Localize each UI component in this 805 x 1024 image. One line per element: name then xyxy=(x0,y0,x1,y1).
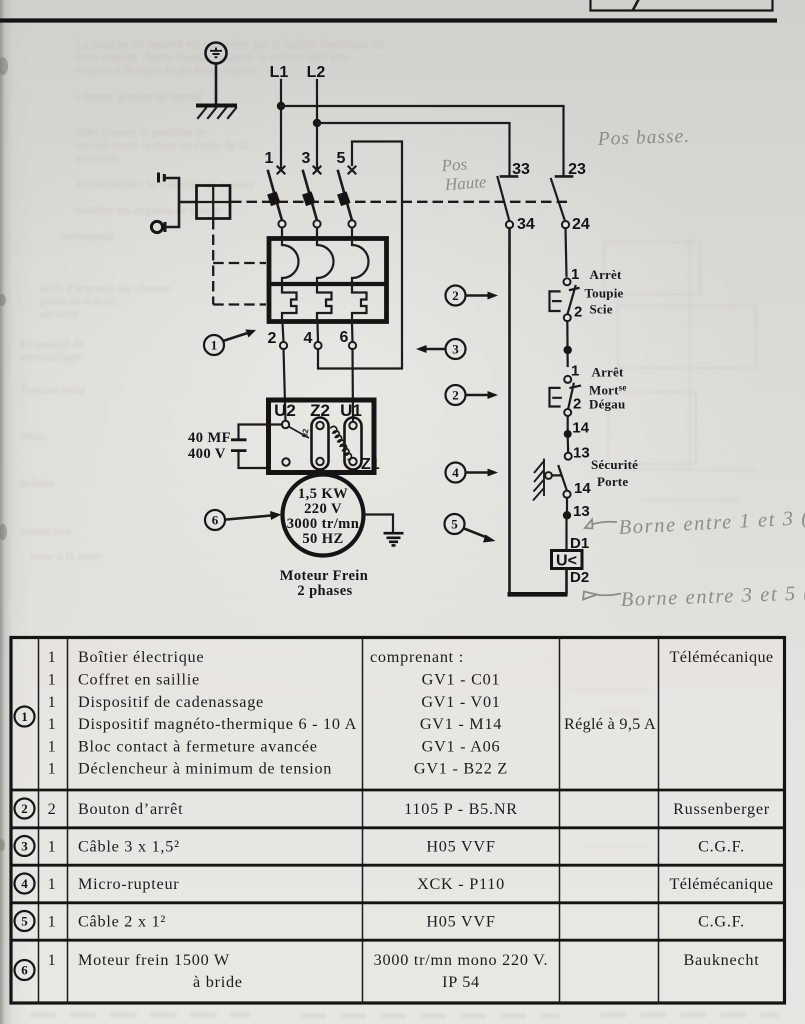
svg-text:40 MF: 40 MF xyxy=(188,430,231,446)
wire door 14 to dot 13 xyxy=(566,498,568,512)
contact circle 34 xyxy=(506,221,513,228)
svg-text:Déclencheur à minimum de tensi: Déclencheur à minimum de tension xyxy=(78,760,332,778)
svg-text:Télémécanique: Télémécanique xyxy=(669,648,773,666)
svg-text:1: 1 xyxy=(48,738,57,756)
svg-text:Scie: Scie xyxy=(590,302,613,317)
moving contact circle pole 1 xyxy=(278,220,285,227)
svg-text:GV1 - C01: GV1 - C01 xyxy=(422,671,501,689)
svg-text:5: 5 xyxy=(337,150,346,167)
svg-text:arrêt d'urgence sur chaque: arrêt d'urgence sur chaque xyxy=(40,281,171,295)
svg-text:contacteur: contacteur xyxy=(20,524,73,538)
earth symbol in circle (top left) xyxy=(206,43,227,64)
wire: 34 to bottom rail xyxy=(508,228,511,593)
circled ref 2 (upper) xyxy=(446,286,466,306)
svg-text:3: 3 xyxy=(21,839,28,854)
circled ref 3 xyxy=(446,339,466,359)
svg-text:Réglé à 9,5 A: Réglé à 9,5 A xyxy=(564,715,656,733)
title box (cut at page top) xyxy=(591,0,773,11)
terminal circle U2 xyxy=(282,421,289,428)
handle box (main switch operator) xyxy=(197,186,231,219)
svg-text:220 V: 220 V xyxy=(304,501,342,517)
table row separators xyxy=(11,790,785,940)
wire dot 13 to D1 xyxy=(565,515,567,550)
svg-text:Pos basse.: Pos basse. xyxy=(596,126,690,150)
svg-text:Moteur frein 1500 W: Moteur frein 1500 W xyxy=(78,951,230,969)
svg-text:C.G.F.: C.G.F. xyxy=(698,838,745,856)
bottom rail (bold) xyxy=(508,592,568,597)
svg-text:1: 1 xyxy=(48,648,57,666)
dashed trip bar xyxy=(231,201,567,203)
svg-text:Borne entre 3 et 5 (Ri: Borne entre 3 et 5 (Ri xyxy=(620,582,805,611)
svg-text:toucher les organes de coupe: toucher les organes de coupe xyxy=(76,203,221,217)
svg-text:Câble 3 x 1,5²: Câble 3 x 1,5² xyxy=(78,838,180,856)
svg-text:Arrèt: Arrèt xyxy=(590,267,622,282)
row 1 circled ref xyxy=(15,707,35,727)
svg-text:1: 1 xyxy=(571,266,579,283)
svg-text:2: 2 xyxy=(574,304,582,321)
svg-text:1: 1 xyxy=(48,715,57,733)
svg-text:1: 1 xyxy=(48,951,57,969)
wire U2 to capacitor xyxy=(239,425,283,439)
svg-text:1: 1 xyxy=(48,913,57,931)
svg-text:D2: D2 xyxy=(570,569,589,586)
svg-text:4: 4 xyxy=(21,876,28,891)
magnetic element pole 3 xyxy=(317,284,332,321)
dashed link: to thermal release xyxy=(213,262,266,264)
svg-text:3000 tr/mn: 3000 tr/mn xyxy=(287,516,360,532)
magnetic element pole 1 xyxy=(282,284,297,321)
thermal element pole 1 xyxy=(282,239,299,285)
contact circle 14 (door) xyxy=(563,491,570,498)
breaker blade pole 3 xyxy=(303,171,317,221)
svg-text:GV1 - M14: GV1 - M14 xyxy=(420,715,502,733)
svg-text:Toupie: Toupie xyxy=(585,286,624,301)
wire: L2 bus to contact 33 xyxy=(317,123,510,175)
capacitor C1 plates xyxy=(231,440,247,451)
U1 top screw xyxy=(349,422,356,429)
circled ref 6 xyxy=(205,510,225,530)
svg-text:Dispositif de cadenassage: Dispositif de cadenassage xyxy=(78,693,264,711)
svg-text:GV1 - A06: GV1 - A06 xyxy=(422,738,501,756)
svg-text:1: 1 xyxy=(48,671,57,689)
leader arrow ref 2 lower xyxy=(466,391,498,399)
svg-text:1: 1 xyxy=(21,709,28,724)
svg-text:H05 VVF: H05 VVF xyxy=(426,838,495,856)
trip block pole 3 xyxy=(307,193,311,205)
table column lines xyxy=(39,638,659,1004)
O terminal tick xyxy=(164,222,167,232)
svg-text:1: 1 xyxy=(48,693,57,711)
svg-text:à bride: à bride xyxy=(193,973,243,991)
svg-text:Bauknecht: Bauknecht xyxy=(684,951,760,969)
terminal circle 6 xyxy=(349,342,356,349)
moving contact circle pole 3 xyxy=(313,220,320,227)
leader arrow ref 3 (points left) xyxy=(416,345,445,353)
spare screw bottom-left xyxy=(282,458,289,465)
svg-text:Z1: Z1 xyxy=(361,456,380,473)
svg-text:Arrêt: Arrêt xyxy=(592,365,624,380)
wire pole3 into box xyxy=(316,228,318,238)
svg-text:Télémécanique: Télémécanique xyxy=(669,875,773,893)
circled ref 5 xyxy=(445,514,465,534)
svg-text:3: 3 xyxy=(452,342,459,357)
overload relay box GV1 xyxy=(269,239,387,322)
wire stop B to 14 xyxy=(567,416,569,430)
svg-text:IP 54: IP 54 xyxy=(442,973,480,991)
svg-text:2: 2 xyxy=(452,288,459,303)
wire stop A to junction xyxy=(566,321,569,366)
top rule xyxy=(0,18,777,22)
mushroom head stop B xyxy=(550,388,561,407)
junction dot on L1 xyxy=(277,102,285,110)
limit switch contact 23-24 xyxy=(551,176,572,221)
wire terminal 6 to U1 xyxy=(351,349,354,421)
svg-text:Sécurité: Sécurité xyxy=(591,457,638,472)
wire terminal 2 to U2 xyxy=(284,349,286,421)
svg-text:sélectionner la position de: sélectionner la position de xyxy=(76,125,207,139)
stop A bottom circle xyxy=(564,314,571,321)
svg-text:34: 34 xyxy=(517,216,535,233)
row 3 xyxy=(15,836,35,856)
svg-text:poste de travail: poste de travail xyxy=(40,294,117,308)
thermal element pole 5 xyxy=(352,239,369,285)
svg-text:1: 1 xyxy=(265,150,274,167)
wire: L1 drop xyxy=(280,80,282,169)
leader arrow ref 4 xyxy=(466,469,498,477)
handwritten pointer 1 xyxy=(585,520,617,529)
svg-text:1: 1 xyxy=(48,838,57,856)
svg-text:13: 13 xyxy=(573,503,590,520)
stop B blade xyxy=(568,384,580,411)
motor M circle xyxy=(283,475,364,556)
svg-text:50 HZ: 50 HZ xyxy=(302,531,343,547)
wire pole5 into box xyxy=(351,228,353,238)
leader arrow ref 5 xyxy=(464,529,496,543)
limit switch contact 33-34 xyxy=(498,176,518,221)
svg-text:6: 6 xyxy=(21,963,28,978)
breaker blade pole 5 xyxy=(338,171,352,221)
svg-text:C.G.F.: C.G.F. xyxy=(698,913,745,931)
svg-text:bobine: bobine xyxy=(20,476,54,490)
svg-text:L1: L1 xyxy=(270,64,289,81)
svg-text:comprenant :: comprenant : xyxy=(370,648,464,666)
Z2 bottom screw xyxy=(316,458,323,465)
svg-text:Boîtier électrique: Boîtier électrique xyxy=(78,648,204,666)
circled ref 2 (lower) xyxy=(446,385,466,405)
svg-text:relais: relais xyxy=(20,429,47,443)
parts table frame xyxy=(11,638,785,1004)
terminal x mark pole 1 xyxy=(278,167,285,174)
svg-text:relancé à la main avant toute: relancé à la main avant toute reprise xyxy=(76,63,257,77)
row 2 xyxy=(15,799,35,819)
wire pole1 to terminal 2 xyxy=(283,323,284,342)
breaker blade pole 1 xyxy=(268,171,282,221)
terminal circle 4 xyxy=(314,342,321,349)
svg-text:Moteur Frein: Moteur Frein xyxy=(280,568,368,584)
svg-text:Dispositif magnéto-thermique 6: Dispositif magnéto-thermique 6 - 10 A xyxy=(78,715,357,733)
svg-text:verrouillage: verrouillage xyxy=(20,350,81,364)
mushroom head stop A xyxy=(550,291,561,311)
svg-text:1: 1 xyxy=(48,760,57,778)
wire pole5 to terminal 6 xyxy=(351,323,354,342)
svg-text:2: 2 xyxy=(21,801,28,816)
svg-text:machine: machine xyxy=(76,151,119,165)
svg-text:travail avant la mise en route: travail avant la mise en route de la xyxy=(76,138,248,152)
svg-text:Chaque groupe de travail: Chaque groupe de travail xyxy=(76,90,203,104)
wire capacitor to box xyxy=(239,452,267,468)
svg-text:Borne entre 1 et 3 (Bleu: Borne entre 1 et 3 (Bleu xyxy=(618,505,805,539)
stop B bottom circle xyxy=(564,409,571,416)
svg-text:H05 VVF: H05 VVF xyxy=(426,913,495,931)
svg-text:Haute: Haute xyxy=(443,172,487,194)
terminal x mark pole 5 xyxy=(349,167,356,174)
wire: L2 drop xyxy=(316,80,318,169)
svg-text:6: 6 xyxy=(340,329,349,346)
wire pole1 into box xyxy=(281,228,283,238)
svg-text:3: 3 xyxy=(302,150,311,167)
svg-text:400 V: 400 V xyxy=(188,446,226,462)
svg-text:L2: L2 xyxy=(307,64,326,81)
svg-text:mise à la terre: mise à la terre xyxy=(30,549,101,563)
handle label O xyxy=(151,221,162,232)
svg-text:Porte: Porte xyxy=(597,474,628,489)
svg-text:1: 1 xyxy=(48,875,57,893)
svg-text:Pos: Pos xyxy=(440,154,468,175)
svg-text:02: 02 xyxy=(300,427,311,438)
wire terminal 4 loop to pole 5 input xyxy=(318,142,402,369)
handwritten pointer 2 xyxy=(583,592,621,600)
terminal dot 13 (lower) xyxy=(563,511,571,519)
svg-text:13: 13 xyxy=(573,445,590,462)
row 4 xyxy=(15,874,35,894)
terminal link Z2 (stadium) xyxy=(312,418,329,470)
svg-text:1105 P - B5.NR: 1105 P - B5.NR xyxy=(404,800,518,818)
magnetic element pole 5 xyxy=(352,284,367,321)
terminal x mark pole 3 xyxy=(314,167,321,174)
stop A top circle xyxy=(564,278,571,285)
dashed link: to magnetic release xyxy=(213,303,266,305)
door switch pivot xyxy=(545,472,552,479)
svg-text:2: 2 xyxy=(48,800,57,818)
wire: 24 down to stop contact xyxy=(566,228,567,276)
mark inside title box xyxy=(634,1,639,10)
box divider xyxy=(269,282,386,286)
svg-text:Russenberger: Russenberger xyxy=(673,800,770,818)
brake coil between Z2 and U1 xyxy=(331,426,352,459)
svg-text:Bouton d’arrêt: Bouton d’arrêt xyxy=(78,800,183,818)
wire: earth circle to ground symbol xyxy=(215,64,218,105)
circled ref 4 xyxy=(446,463,466,483)
svg-text:2: 2 xyxy=(268,330,277,347)
leader arrow ref 2 upper xyxy=(466,292,498,300)
svg-text:Micro-rupteur: Micro-rupteur xyxy=(78,875,179,893)
svg-text:sécurité: sécurité xyxy=(40,307,79,321)
wire pole3 to terminal 4 xyxy=(316,323,319,342)
wire 14 to 13 xyxy=(567,437,570,453)
handle label I xyxy=(159,173,165,183)
trip block pole 1 xyxy=(272,193,276,205)
circled ref 1 xyxy=(204,335,224,355)
svg-text:La marche du moteur est contrô: La marche du moteur est contrôlée par le… xyxy=(76,37,385,51)
wire motor to earth xyxy=(364,515,393,532)
dashed link: handle down xyxy=(212,219,214,305)
trip block pole 5 xyxy=(342,193,346,205)
wire D2 to bottom rail xyxy=(565,569,568,594)
svg-text:U<: U< xyxy=(556,553,577,570)
link wire from U2 xyxy=(289,427,310,439)
terminal circle 13 xyxy=(565,453,572,460)
svg-text:4: 4 xyxy=(452,465,459,480)
svg-text:14: 14 xyxy=(574,480,591,497)
undervoltage relay U< box xyxy=(552,551,583,570)
terminal dot 14 xyxy=(564,430,572,438)
handwriting: Pos Haute xyxy=(440,153,488,194)
svg-text:2: 2 xyxy=(452,388,459,403)
svg-text:14: 14 xyxy=(572,420,589,437)
svg-text:2: 2 xyxy=(573,396,581,413)
leader arrow ref 1 xyxy=(225,330,257,341)
ground symbol (mass) xyxy=(196,106,237,119)
svg-text:4: 4 xyxy=(304,330,313,347)
svg-text:GV1 - B22 Z: GV1 - B22 Z xyxy=(414,760,508,778)
svg-text:Dégau: Dégau xyxy=(589,397,625,412)
stop A blade xyxy=(568,286,579,314)
earth symbol at motor xyxy=(384,533,404,545)
svg-text:Dispositif de: Dispositif de xyxy=(20,337,85,351)
door switch wall hatching xyxy=(533,459,544,501)
svg-text:Mortse: Mortse xyxy=(589,383,627,398)
svg-text:commande: commande xyxy=(60,229,115,243)
terminal link U1 (stadium) xyxy=(345,418,362,470)
junction dot on L2 xyxy=(313,119,321,127)
svg-text:2 phases: 2 phases xyxy=(297,583,352,599)
svg-text:Tension mini: Tension mini xyxy=(20,383,86,397)
terminal circle 2 xyxy=(280,342,287,349)
wire: L1 bus to contact 23 xyxy=(281,106,564,175)
svg-text:Coffret en saillie: Coffret en saillie xyxy=(78,671,200,689)
svg-text:5: 5 xyxy=(451,517,458,532)
svg-text:3000 tr/mn mono 220 V.: 3000 tr/mn mono 220 V. xyxy=(374,951,549,969)
thermal element pole 3 xyxy=(317,239,334,285)
moving contact circle pole 5 xyxy=(348,220,355,227)
junction dot xyxy=(564,346,572,354)
leader arrow ref 6 xyxy=(227,511,282,520)
door switch link and blade xyxy=(552,466,567,491)
svg-text:6: 6 xyxy=(212,513,219,528)
row 5 xyxy=(15,911,35,931)
svg-text:Bloc contact à fermeture avanc: Bloc contact à fermeture avancée xyxy=(78,738,318,756)
stop B top circle xyxy=(564,376,571,383)
svg-text:1,5 KW: 1,5 KW xyxy=(298,486,348,502)
svg-text:5: 5 xyxy=(21,914,28,929)
U1 bottom screw xyxy=(349,458,356,465)
svg-text:1: 1 xyxy=(571,363,579,380)
svg-text:Câble 2 x 1²: Câble 2 x 1² xyxy=(78,913,166,931)
contact circle 24 xyxy=(562,221,569,228)
row 6 xyxy=(15,960,35,980)
svg-text:24: 24 xyxy=(572,216,590,233)
motor terminal box xyxy=(269,400,375,473)
svg-text:1: 1 xyxy=(211,338,218,353)
wire: I-O linkage to handle box xyxy=(166,178,196,227)
svg-text:XCK - P110: XCK - P110 xyxy=(417,875,505,893)
Z2 top screw xyxy=(316,422,323,429)
svg-text:GV1 - V01: GV1 - V01 xyxy=(421,693,500,711)
svg-text:U2: U2 xyxy=(274,401,296,420)
